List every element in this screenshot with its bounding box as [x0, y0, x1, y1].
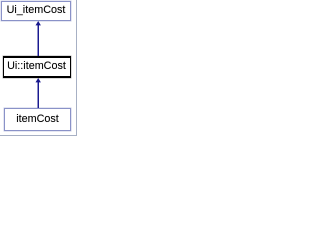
wire: arrow from Ui::itemCost up to Ui_itemCost [36, 21, 41, 56]
frame line right edge [76, 0, 77, 136]
node Ui_itemCost (base class box) [1, 1, 71, 21]
inheritance arrows [0, 0, 77, 136]
wire: arrow from itemCost up to Ui::itemCost [36, 78, 41, 108]
node itemCost (derived class box) [4, 108, 71, 131]
node Ui::itemCost (current class box, bold black border) [3, 56, 71, 78]
frame line bottom edge [0, 135, 77, 136]
